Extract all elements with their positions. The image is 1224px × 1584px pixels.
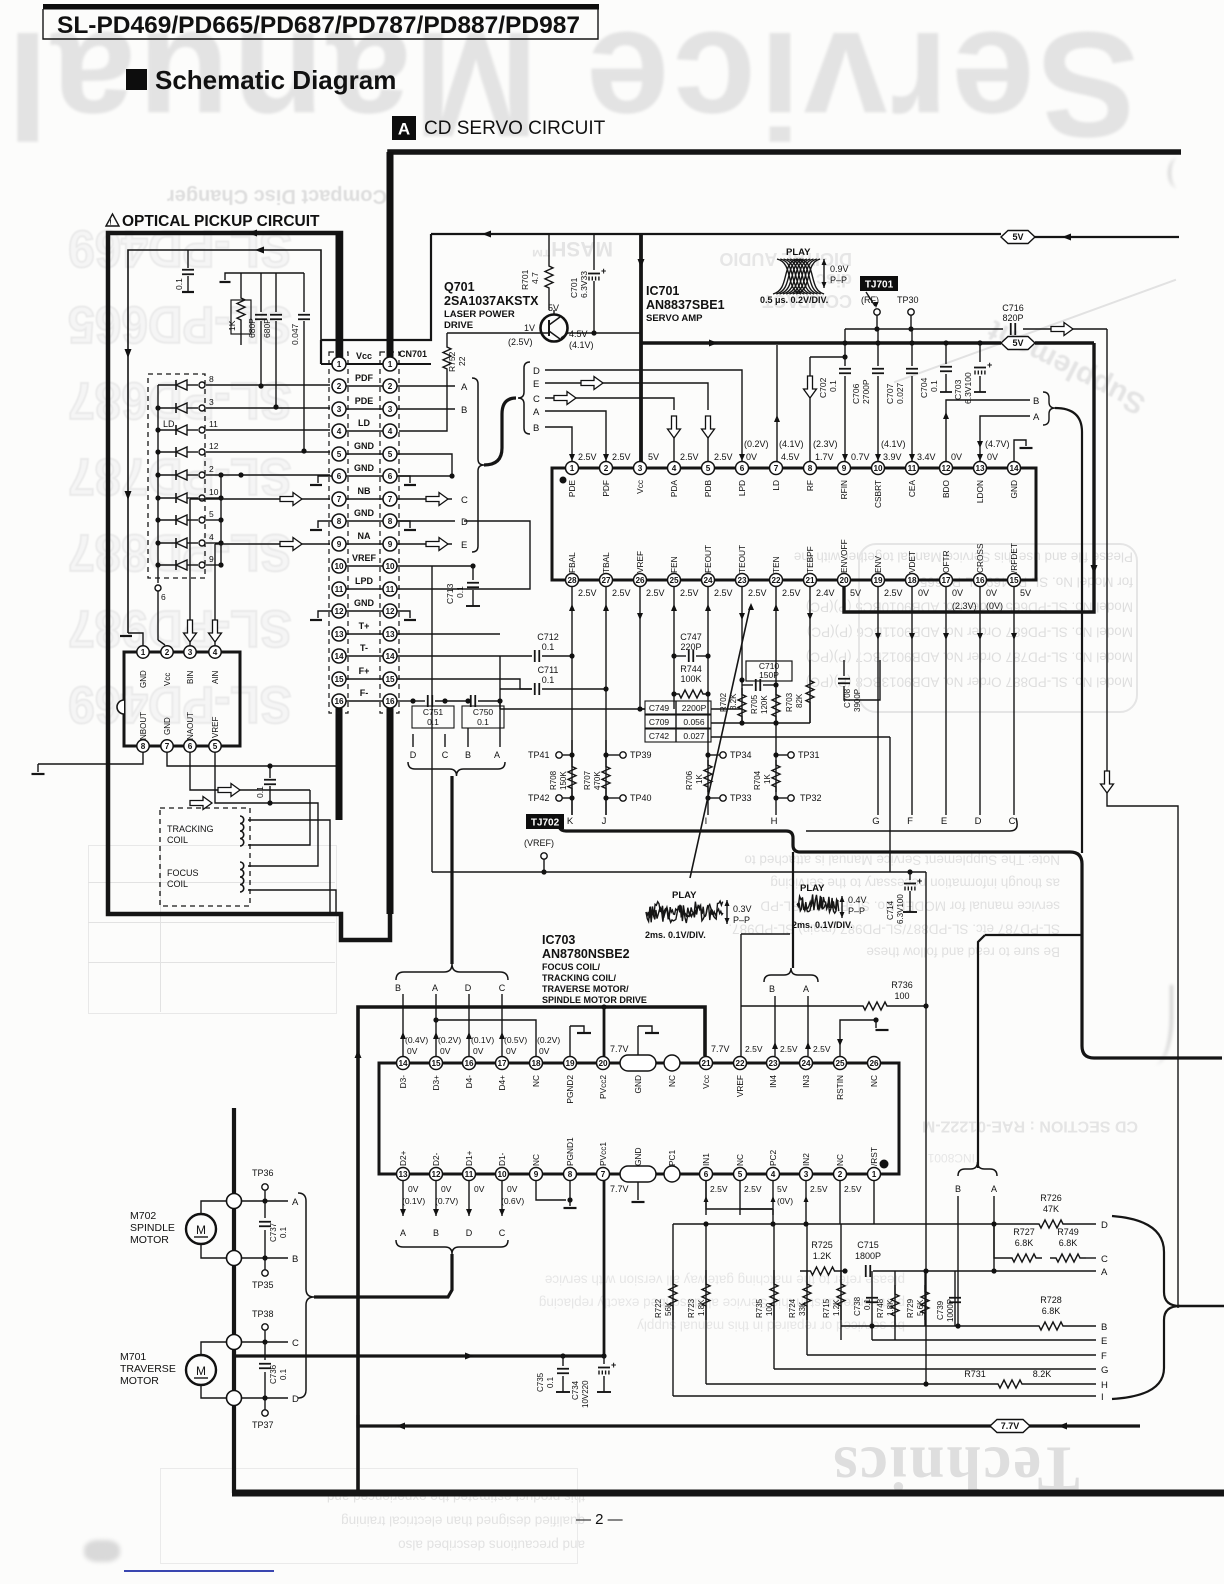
svg-text:2.5V: 2.5V — [714, 452, 733, 462]
svg-text:4: 4 — [213, 648, 218, 657]
junction node A — [227, 1194, 242, 1209]
IC701 pin 12 BDO — [940, 462, 953, 475]
IC703 pin 15 D3+ — [430, 1057, 443, 1070]
photodiode 9 — [158, 564, 176, 566]
collector bus bracket — [559, 818, 1222, 1058]
svg-text:I: I — [705, 816, 708, 827]
C703 capacitor — [979, 343, 981, 362]
svg-text:9: 9 — [534, 1170, 539, 1179]
svg-text:B: B — [465, 750, 471, 760]
svg-text:0.7V: 0.7V — [851, 452, 870, 462]
svg-text:C: C — [499, 983, 506, 993]
TBAL branch pin27 — [605, 586, 607, 815]
svg-text:0V: 0V — [986, 588, 997, 598]
thick 5V feed to IC701 Vcc — [639, 234, 643, 462]
TJ701 label — [860, 276, 898, 291]
svg-text:3: 3 — [388, 405, 393, 414]
svg-text:0V: 0V — [918, 588, 929, 598]
svg-text:0.1: 0.1 — [828, 380, 838, 392]
svg-text:NC: NC — [667, 1075, 677, 1087]
svg-text:2.5V: 2.5V — [748, 588, 767, 598]
wire A to IC701 pin2 — [545, 411, 606, 461]
R703 resistor — [806, 660, 814, 723]
IC703 pin 1 /RST — [868, 1168, 881, 1181]
svg-text:LPD: LPD — [737, 480, 747, 496]
svg-text:PDA: PDA — [669, 480, 679, 498]
pin9 NC stub — [536, 1180, 566, 1200]
svg-text:(0V): (0V) — [986, 601, 1003, 611]
svg-text:G: G — [1101, 1365, 1108, 1376]
CN701 dashed outline right — [380, 352, 399, 713]
svg-text:(0V): (0V) — [777, 1196, 793, 1206]
IC703 pin 6 IN1 — [700, 1168, 713, 1181]
branch to lower B/A brace — [978, 935, 985, 1168]
svg-text:0.1: 0.1 — [279, 1368, 288, 1380]
C712 cap — [500, 655, 532, 657]
svg-text:A: A — [803, 984, 809, 994]
svg-text:2.5V: 2.5V — [780, 1044, 798, 1054]
T+ row — [397, 633, 500, 635]
svg-text:C701: C701 — [569, 277, 579, 298]
svg-text:10: 10 — [334, 562, 344, 571]
svg-text:19: 19 — [565, 1059, 575, 1068]
svg-text:6: 6 — [337, 472, 342, 481]
svg-text:R726: R726 — [1040, 1193, 1062, 1203]
svg-text:IC701: IC701 — [646, 284, 679, 298]
C715 capacitor — [865, 1265, 867, 1277]
C734 capacitor — [603, 1356, 605, 1364]
svg-text:E: E — [461, 540, 467, 551]
IC701 pin 8 RF — [804, 462, 817, 475]
svg-text:TRACKING COIL/: TRACKING COIL/ — [542, 973, 616, 983]
svg-text:A: A — [398, 120, 410, 139]
svg-text:GND: GND — [354, 508, 375, 518]
IC703 pin 20 PVcc2 — [597, 1057, 610, 1070]
svg-text:R724: R724 — [788, 1298, 797, 1318]
svg-text:2.5V: 2.5V — [744, 1184, 762, 1194]
IC703 bottom-left stubs to motors — [402, 1180, 404, 1216]
ENV..RFDET branches — [877, 586, 879, 815]
svg-text:C713: C713 — [445, 583, 455, 604]
IC701 pin 26 VREF — [634, 574, 647, 587]
gnd at pin14 — [1014, 440, 1026, 461]
svg-text:22: 22 — [457, 356, 467, 366]
resistor R735 — [773, 1224, 775, 1369]
section bullet square — [126, 69, 147, 90]
IC703 pin 18 NC — [530, 1057, 543, 1070]
svg-text:A: A — [400, 1228, 406, 1238]
IC701 pin 15 /RFDET — [1008, 574, 1021, 587]
svg-text:17: 17 — [941, 576, 951, 585]
gnd at CN701 pin12 right — [397, 611, 410, 618]
svg-text:CD SERVO CIRCUIT: CD SERVO CIRCUIT — [424, 118, 606, 139]
svg-text:SPINDLE MOTOR DRIVE: SPINDLE MOTOR DRIVE — [542, 995, 647, 1005]
svg-text:A: A — [1033, 412, 1040, 423]
svg-text:27: 27 — [601, 576, 611, 585]
svg-text:7: 7 — [337, 495, 342, 504]
svg-text:M: M — [196, 1223, 206, 1237]
wire C712 row left — [499, 656, 501, 709]
capacitor C738 — [871, 1271, 873, 1340]
second brace D E C A B — [518, 362, 530, 434]
svg-text:C709: C709 — [649, 717, 670, 727]
svg-text:14: 14 — [334, 652, 344, 661]
IC701 pin 5 PDB — [702, 462, 715, 475]
svg-text:2: 2 — [337, 382, 342, 391]
svg-text:FOCUS: FOCUS — [167, 868, 199, 878]
svg-text:CN701: CN701 — [399, 349, 427, 359]
svg-text:(0.2V): (0.2V) — [744, 439, 769, 449]
wire pin13 to brace A — [980, 416, 1030, 461]
transistor Q701 — [541, 315, 568, 342]
svg-text:6: 6 — [388, 472, 393, 481]
svg-text:(0.7V): (0.7V) — [435, 1196, 458, 1206]
wire preamp pin5 out — [215, 752, 310, 803]
svg-text:F: F — [1101, 1351, 1107, 1362]
svg-text:2: 2 — [838, 1170, 843, 1179]
svg-text:7.7V: 7.7V — [1001, 1421, 1020, 1431]
svg-text:B: B — [955, 1184, 961, 1194]
svg-text:D4-: D4- — [464, 1075, 474, 1089]
svg-text:P–P: P–P — [848, 906, 865, 916]
svg-text:1: 1 — [570, 464, 575, 473]
svg-text:0.1: 0.1 — [455, 586, 465, 598]
svg-text:TP41: TP41 — [528, 750, 550, 760]
svg-text:3: 3 — [209, 397, 214, 407]
svg-text:GND: GND — [354, 598, 375, 608]
svg-text:(0.6V): (0.6V) — [501, 1196, 524, 1206]
svg-text:13: 13 — [398, 1170, 408, 1179]
svg-text:/RST: /RST — [869, 1147, 879, 1166]
wire C to IC701 pin4 — [545, 398, 674, 410]
svg-text:5: 5 — [388, 450, 393, 459]
brace CN701 signals — [472, 378, 484, 552]
C710 cap — [746, 661, 792, 681]
motor M701 wires — [201, 1342, 226, 1355]
IC701 pin 25 FEN — [668, 574, 681, 587]
hollow arrow NB row — [280, 493, 302, 506]
svg-text:P–P: P–P — [733, 915, 750, 925]
svg-text:AIN: AIN — [211, 670, 220, 684]
TP35 — [262, 1270, 268, 1276]
svg-text:10: 10 — [385, 562, 395, 571]
svg-text:1: 1 — [388, 360, 393, 369]
RSTIN ground — [840, 1020, 876, 1056]
photodiode 2 — [158, 474, 176, 476]
svg-text:TP39: TP39 — [630, 750, 652, 760]
svg-text:Vcc: Vcc — [701, 1075, 711, 1089]
svg-text:9: 9 — [209, 554, 214, 564]
IC703 pin 13 D2+ — [397, 1168, 410, 1181]
svg-text:0V: 0V — [473, 1046, 484, 1056]
svg-text:NB: NB — [358, 486, 371, 496]
photodiode 11 — [158, 429, 176, 431]
svg-text:28: 28 — [567, 576, 577, 585]
svg-text:TP36: TP36 — [252, 1168, 274, 1178]
svg-text:AN8780NSBE2: AN8780NSBE2 — [542, 947, 630, 961]
IC701 pin 19 ENV — [872, 574, 885, 587]
svg-text:8: 8 — [209, 374, 214, 384]
photodiode 12 — [158, 451, 176, 453]
svg-text:11: 11 — [908, 464, 917, 473]
svg-text:6: 6 — [740, 464, 745, 473]
svg-text:GND: GND — [354, 441, 375, 451]
svg-text:3.9V: 3.9V — [883, 452, 902, 462]
svg-text:PDB: PDB — [703, 480, 713, 498]
svg-text:VREF: VREF — [735, 1075, 745, 1097]
svg-text:4: 4 — [388, 427, 393, 436]
svg-text:5V: 5V — [1012, 338, 1023, 348]
svg-text:15: 15 — [385, 675, 395, 684]
C736 capacitor — [264, 1342, 266, 1360]
cable to IC703 D C B A — [412, 734, 414, 747]
svg-text:4.5V: 4.5V — [781, 452, 800, 462]
svg-text:MOTOR: MOTOR — [120, 1375, 159, 1387]
svg-text:D: D — [292, 1394, 299, 1405]
svg-text:11: 11 — [465, 1170, 474, 1179]
wires to coil cable — [248, 790, 310, 845]
C751 cap — [413, 700, 425, 702]
svg-text:21: 21 — [805, 576, 815, 585]
row E wire — [872, 1339, 1096, 1341]
IC703 pin 25 RSTIN — [834, 1057, 847, 1070]
svg-text:TEOUT: TEOUT — [737, 545, 747, 573]
svg-text:0.1: 0.1 — [279, 1226, 288, 1238]
svg-text:0V: 0V — [987, 452, 998, 462]
preamp pin 5 — [209, 740, 221, 752]
IC701 pin 7 LD — [770, 462, 783, 475]
svg-text:D: D — [466, 1228, 473, 1238]
svg-text:RF: RF — [805, 480, 815, 491]
svg-text:20: 20 — [598, 1059, 608, 1068]
CN701 cable bars — [336, 233, 343, 357]
IC701 pin 6 LPD — [736, 462, 749, 475]
CN701 pin row 3 PDE — [346, 408, 383, 410]
svg-text:C706: C706 — [851, 383, 861, 404]
svg-text:FEOUT: FEOUT — [703, 545, 713, 573]
svg-text:D: D — [1101, 1220, 1108, 1231]
IC703 pin 3 IN2 — [800, 1168, 813, 1181]
arrows into IC701 top pins — [569, 454, 575, 461]
svg-text:6.3V100: 6.3V100 — [963, 372, 973, 404]
row G wire — [774, 1368, 1096, 1370]
supplement diagonal line — [894, 279, 1177, 383]
svg-text:R736: R736 — [891, 980, 913, 990]
svg-text:11: 11 — [209, 419, 218, 429]
svg-text:13: 13 — [385, 630, 395, 639]
svg-text:1800P: 1800P — [855, 1251, 881, 1261]
R744 resistor — [674, 690, 708, 698]
svg-text:3900P: 3900P — [853, 689, 862, 712]
svg-text:LD: LD — [358, 418, 370, 428]
wire preamp pin8 gnd — [38, 752, 143, 764]
svg-text:5: 5 — [209, 509, 214, 519]
svg-text:T-: T- — [360, 643, 368, 653]
svg-text:B: B — [433, 1228, 439, 1238]
svg-text:ENVOFF: ENVOFF — [839, 539, 849, 573]
svg-text:TP32: TP32 — [800, 793, 822, 803]
VREF branch pin26 — [639, 586, 641, 709]
diode bus left — [157, 385, 159, 583]
svg-text:NC: NC — [735, 1154, 745, 1166]
svg-text:R708: R708 — [549, 770, 558, 790]
svg-text:(4.1V): (4.1V) — [881, 439, 906, 449]
svg-text:CROSS: CROSS — [975, 543, 985, 573]
resistor R729 — [924, 1271, 926, 1326]
svg-text:F+: F+ — [359, 666, 370, 676]
svg-text:R727: R727 — [1013, 1227, 1035, 1237]
svg-text:8: 8 — [808, 464, 813, 473]
svg-text:GND: GND — [633, 1148, 643, 1166]
svg-text:PDF: PDF — [355, 373, 374, 383]
CN701 pin row 14 T- — [346, 655, 383, 657]
svg-text:B: B — [395, 983, 401, 993]
note box ghost — [858, 543, 1138, 713]
TP40 — [620, 795, 626, 801]
row C wire — [994, 1224, 1006, 1258]
IC703 pin 22 VREF — [734, 1057, 747, 1070]
svg-text:5V: 5V — [648, 452, 659, 462]
svg-text:B: B — [1033, 396, 1039, 407]
svg-text:680P: 680P — [262, 318, 272, 338]
svg-text:IN1: IN1 — [701, 1153, 711, 1166]
svg-text:+: + — [601, 266, 606, 276]
svg-text:(2.3V): (2.3V) — [952, 601, 977, 611]
IC703 GND oval top — [620, 1055, 656, 1071]
svg-text:C750: C750 — [473, 707, 494, 717]
svg-text:7.7V: 7.7V — [711, 1044, 730, 1054]
svg-text:Q701: Q701 — [444, 280, 475, 294]
bottom border — [232, 1490, 1224, 1497]
svg-text:25: 25 — [669, 576, 679, 585]
svg-text:1.7V: 1.7V — [815, 452, 834, 462]
svg-text:0.056: 0.056 — [683, 717, 705, 727]
svg-text:0V: 0V — [408, 1184, 419, 1194]
thick cable down to IC703 — [450, 776, 453, 964]
svg-text:B: B — [769, 984, 775, 994]
svg-text:R722: R722 — [654, 1298, 663, 1318]
C701 capacitor — [593, 234, 595, 270]
preamp pin 1 — [137, 646, 149, 658]
svg-text:K: K — [567, 816, 574, 827]
svg-text:D: D — [465, 983, 472, 993]
svg-text:11: 11 — [335, 585, 344, 594]
svg-text:B: B — [533, 423, 539, 434]
resistor R722 — [672, 1224, 674, 1396]
IC701 pin 2 PDF — [600, 462, 613, 475]
IC701 pin 11 CEA — [906, 462, 919, 475]
svg-text:CEA: CEA — [907, 480, 917, 498]
PVcc1 feed down — [603, 1180, 606, 1356]
GND oval bottom ground — [637, 1182, 639, 1200]
svg-text:2200P: 2200P — [682, 703, 707, 713]
svg-text:R707: R707 — [583, 770, 592, 790]
wire NA to preamp — [214, 544, 216, 646]
svg-text:2.5V: 2.5V — [745, 1044, 763, 1054]
svg-text:A: A — [991, 1184, 997, 1194]
tracking/focus coil dashed box — [160, 808, 250, 906]
svg-text:1K: 1K — [227, 320, 237, 331]
svg-text:R752: R752 — [447, 351, 457, 372]
svg-text:14: 14 — [398, 1059, 408, 1068]
line from brace BA down — [1055, 408, 1082, 853]
C711 cap — [500, 688, 532, 690]
optical pickup circuit label — [106, 214, 119, 226]
svg-text:8: 8 — [388, 517, 393, 526]
photodiode array dashed box — [148, 374, 205, 578]
svg-text:7: 7 — [601, 1170, 606, 1179]
svg-text:0.047: 0.047 — [290, 323, 300, 345]
svg-text:A: A — [533, 407, 540, 418]
IN pins stubs with voltages — [705, 1180, 707, 1215]
TP33 — [720, 795, 726, 801]
R725 resistor — [800, 1267, 845, 1275]
hollow arrow NA down — [209, 620, 222, 642]
svg-text:C: C — [533, 394, 540, 405]
svg-text:7: 7 — [774, 464, 779, 473]
svg-text:3: 3 — [638, 464, 643, 473]
svg-text:OFTR: OFTR — [941, 550, 951, 573]
svg-text:DRIVE: DRIVE — [444, 320, 473, 331]
svg-text:TP37: TP37 — [252, 1420, 274, 1430]
svg-text:12: 12 — [431, 1170, 441, 1179]
svg-text:0.1: 0.1 — [427, 717, 439, 727]
IC701 pin 21 TEBPF — [804, 574, 817, 587]
diode output bus 6 — [155, 585, 161, 591]
svg-text:4: 4 — [209, 532, 214, 542]
svg-text:4.5V: 4.5V — [569, 329, 588, 339]
svg-text:4: 4 — [672, 464, 677, 473]
IC703 box — [379, 1063, 899, 1174]
IC703 pin 2 NC — [834, 1168, 847, 1181]
IC703 pin 21 Vcc — [700, 1057, 713, 1070]
focus coil — [240, 862, 244, 892]
Q701 base wire — [447, 332, 549, 334]
PGND2 ground — [569, 1026, 571, 1056]
svg-text:+: + — [917, 876, 922, 886]
IC703 pin 14 D3- — [397, 1057, 410, 1070]
svg-text:0.1: 0.1 — [546, 1376, 555, 1388]
wire pin5-pin6 link right — [397, 454, 452, 476]
svg-text:C747: C747 — [680, 632, 702, 642]
svg-text:0.1: 0.1 — [929, 380, 939, 392]
VREF distribution line — [432, 871, 926, 873]
svg-text:6.8K: 6.8K — [1042, 1306, 1061, 1316]
hollow arrow pin6 line — [218, 784, 240, 797]
IC701 pin 23 TEOUT — [736, 574, 749, 587]
C737 capacitor — [264, 1201, 266, 1218]
svg-text:0.4V: 0.4V — [848, 895, 867, 905]
wire NB to preamp — [189, 499, 191, 646]
wire preamp pin7 out — [167, 752, 336, 766]
svg-text:11: 11 — [386, 585, 395, 594]
boxed cap rows C749/C709/C742 — [645, 701, 711, 714]
svg-text:2.5V: 2.5V — [680, 452, 699, 462]
capacitor 680P a — [260, 273, 262, 312]
junction node C — [227, 1335, 242, 1350]
watermark: mirrored bleed-through of manual cover — [18, 12, 1138, 157]
preamp pin 8 — [137, 740, 149, 752]
decoupling caps row: C702 — [844, 329, 846, 366]
wire 1K/caps top bus — [241, 272, 304, 274]
row H wire — [706, 1383, 990, 1385]
IC703 pin 24 IN3 — [800, 1057, 813, 1070]
hollow arrow pin5 line — [190, 797, 212, 810]
PVcc2 feed — [603, 1007, 606, 1056]
photodiode 5 — [158, 519, 176, 521]
svg-text:2.5V: 2.5V — [612, 452, 631, 462]
5V bubble right — [1001, 231, 1035, 244]
